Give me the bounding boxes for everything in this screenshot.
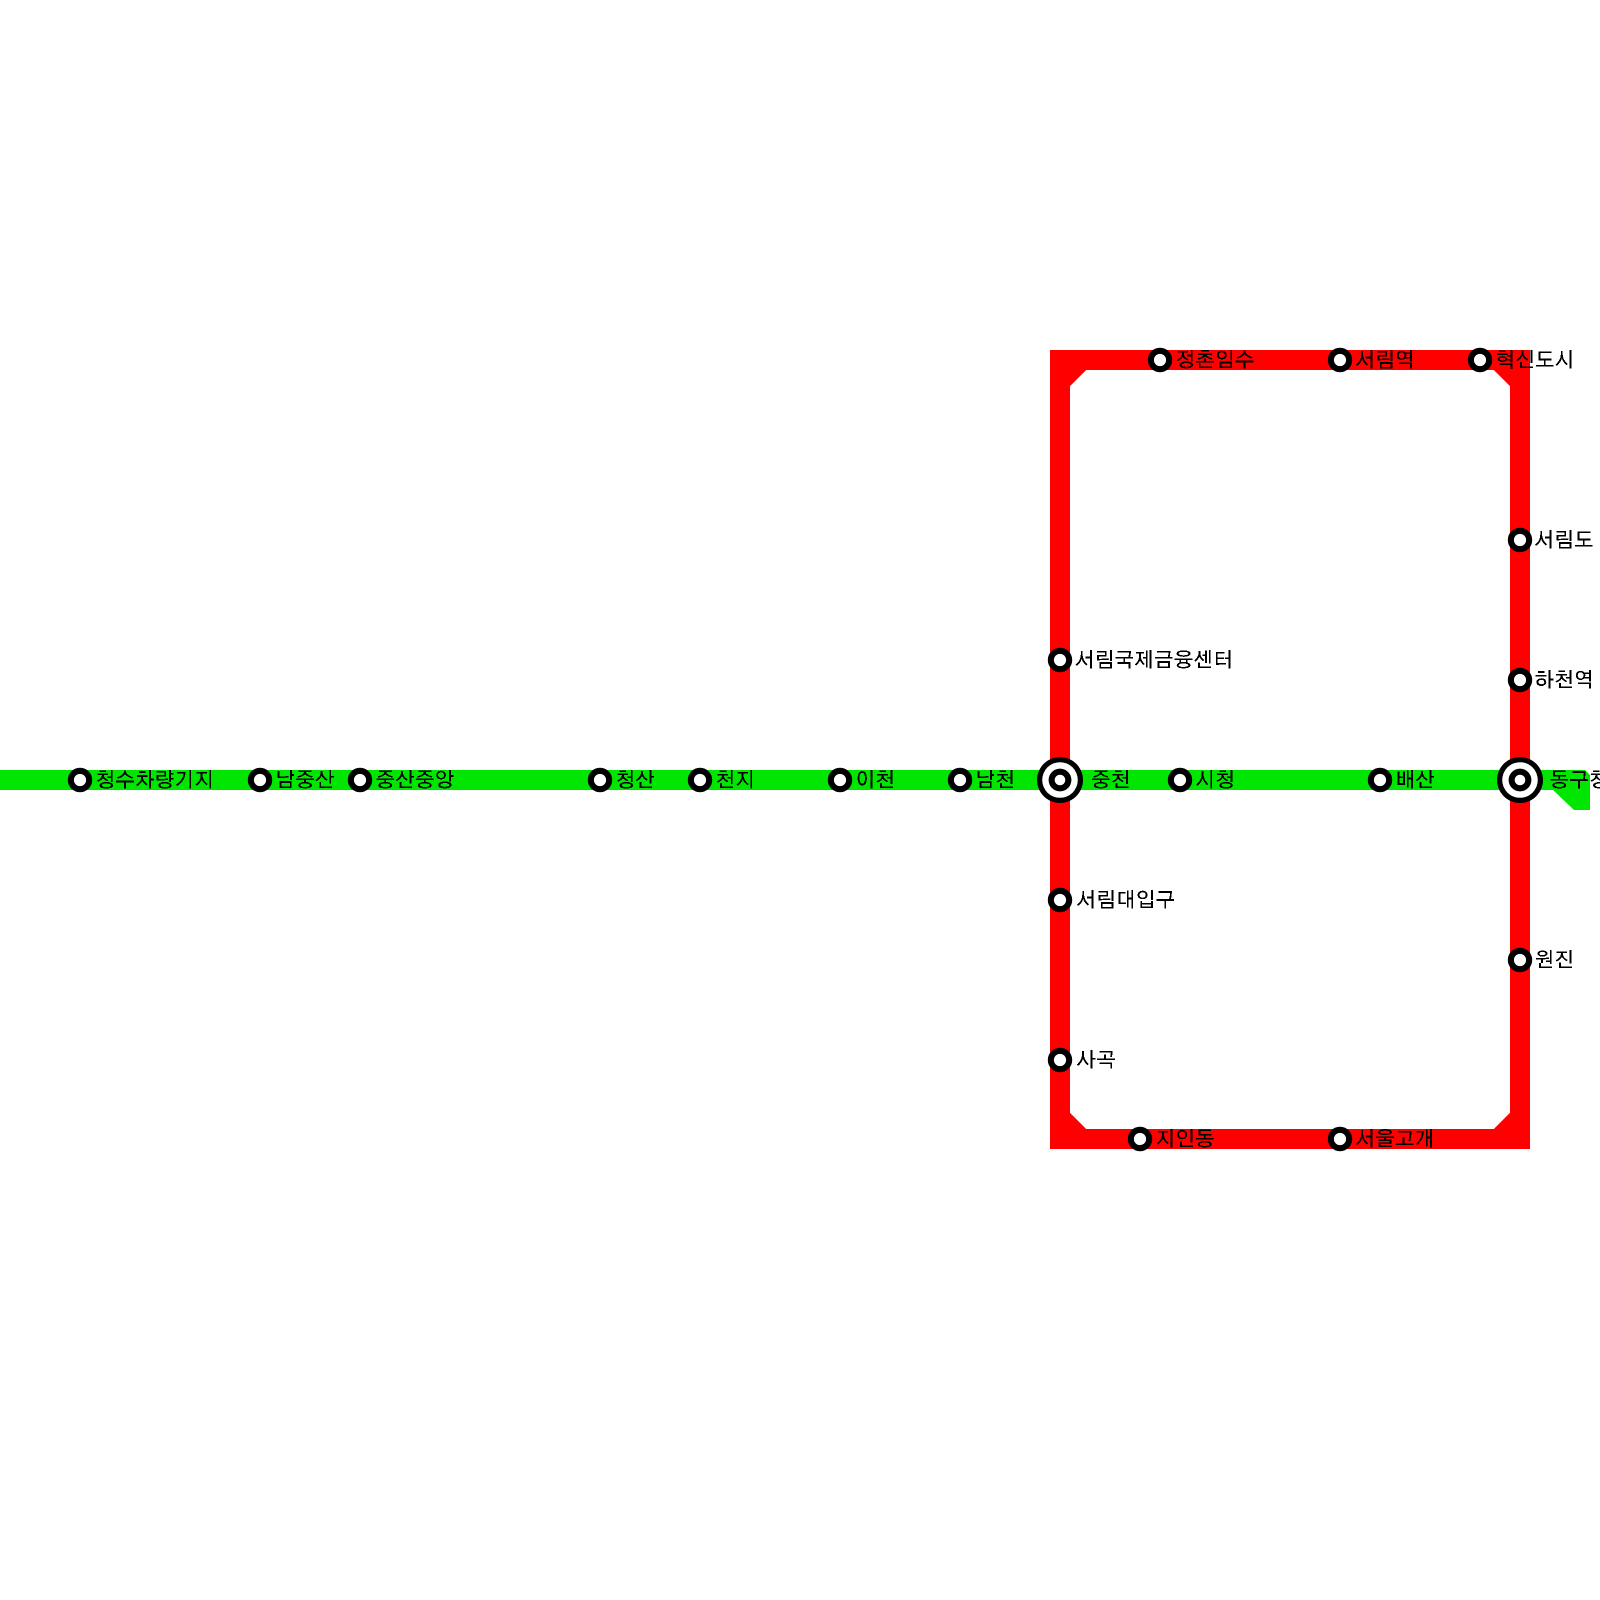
station 남중산 [251,771,269,789]
station 이천 [831,771,849,789]
label 남중산 [278,770,334,788]
label 남천 [978,770,1013,788]
station (interchange) 동구청 [1497,757,1543,803]
station 원진 [1511,951,1529,969]
station 서림대입구 [1051,891,1069,909]
label 청수차량기지 [97,770,211,788]
label 서림역 [1356,350,1412,369]
label 배산 [1398,770,1435,788]
wire red loop left band [1050,350,1070,1149]
wire red loop top band [1050,350,1530,370]
station 서림도 [1511,531,1529,549]
label 청산 [617,770,654,788]
label 혁신도시 [1497,350,1572,369]
label 시청 [1196,770,1233,788]
station 청산 [591,771,609,789]
wire red loop right band [1510,350,1530,1149]
station 천지 [691,771,709,789]
station 서울고개 [1331,1130,1349,1148]
label 하천역 [1536,670,1592,689]
label 서림국제금융센터 [1076,650,1231,669]
wire red loop top-left corner chamfer [1060,360,1082,382]
station 서림역 [1331,351,1349,369]
wire red loop bottom-right corner chamfer [1498,1117,1520,1139]
station 지인동 [1131,1130,1149,1148]
station 중산중앙 [351,771,369,789]
label 지인동 [1157,1129,1214,1147]
label 중산중앙 [376,770,453,788]
label 정촌임수 [1177,350,1254,368]
label 이천 [858,770,893,788]
label 사곡 [1077,1050,1115,1069]
label 서울고개 [1356,1129,1432,1147]
station 혁신도시 [1471,351,1489,369]
label 중천 [1092,770,1129,788]
station 청수차량기지 [71,771,89,789]
station 시청 [1171,771,1189,789]
station (interchange) 중천 [1037,757,1083,803]
wire green Line 2 main horizontal band [0,770,1590,810]
wire red loop bottom-left corner chamfer [1060,1117,1082,1139]
station 서림국제금융센터 [1051,651,1069,669]
wire red loop bottom band [1050,1129,1530,1149]
label 원진 [1536,950,1572,968]
station 남천 [951,771,969,789]
station 정촌임수 [1151,351,1169,369]
wire red loop top-right corner chamfer [1498,360,1520,382]
station 사곡 [1051,1051,1069,1069]
label 천지 [717,770,753,788]
label 서림도 [1535,530,1593,548]
label 서림대입구 [1077,890,1174,908]
station 배산 [1371,771,1389,789]
station 하천역 [1511,671,1529,689]
label 동구청 [1550,770,1600,788]
